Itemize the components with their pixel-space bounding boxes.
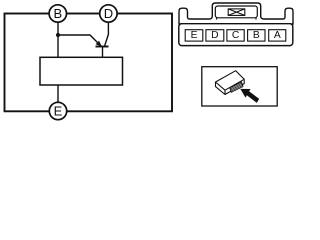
relay icon 3D body [216,71,245,95]
terminal D [100,5,117,22]
transistor Q1 emitter arrowhead [96,41,102,47]
wire collector from D [105,23,109,46]
arrow pointing at relay [240,89,259,103]
connector J1 top profile (ears, ledge, tab) [179,3,293,24]
terminal B [49,5,66,22]
svg-text:B: B [53,6,62,21]
wire emitter from junction [58,35,100,45]
pin D [206,30,224,41]
pin E [185,30,203,41]
connector J1 tab inner legs [217,18,256,20]
svg-text:B: B [253,30,260,41]
wire base to box [102,47,104,58]
relay location box [202,67,277,106]
svg-text:D: D [104,6,113,21]
wire outer loop [5,14,173,112]
pin C [227,30,244,41]
box component (unit) [40,57,123,85]
svg-text:E: E [191,30,198,41]
svg-text:D: D [211,30,218,41]
svg-text:E: E [54,104,63,119]
transistor Q1 base bar [96,46,109,48]
connector J1 body [179,24,293,46]
svg-text:A: A [274,30,281,41]
connector J1 keying box with X [228,9,245,16]
connector J1 tab inner [215,6,257,18]
svg-text:C: C [232,30,240,41]
relay icon terminal block with ridges [230,82,243,92]
node junction dot [56,33,60,37]
pin A [269,30,286,41]
wire B to box [57,23,59,58]
terminal E [49,102,66,119]
pin B [248,30,265,41]
wire box to E [57,85,59,103]
